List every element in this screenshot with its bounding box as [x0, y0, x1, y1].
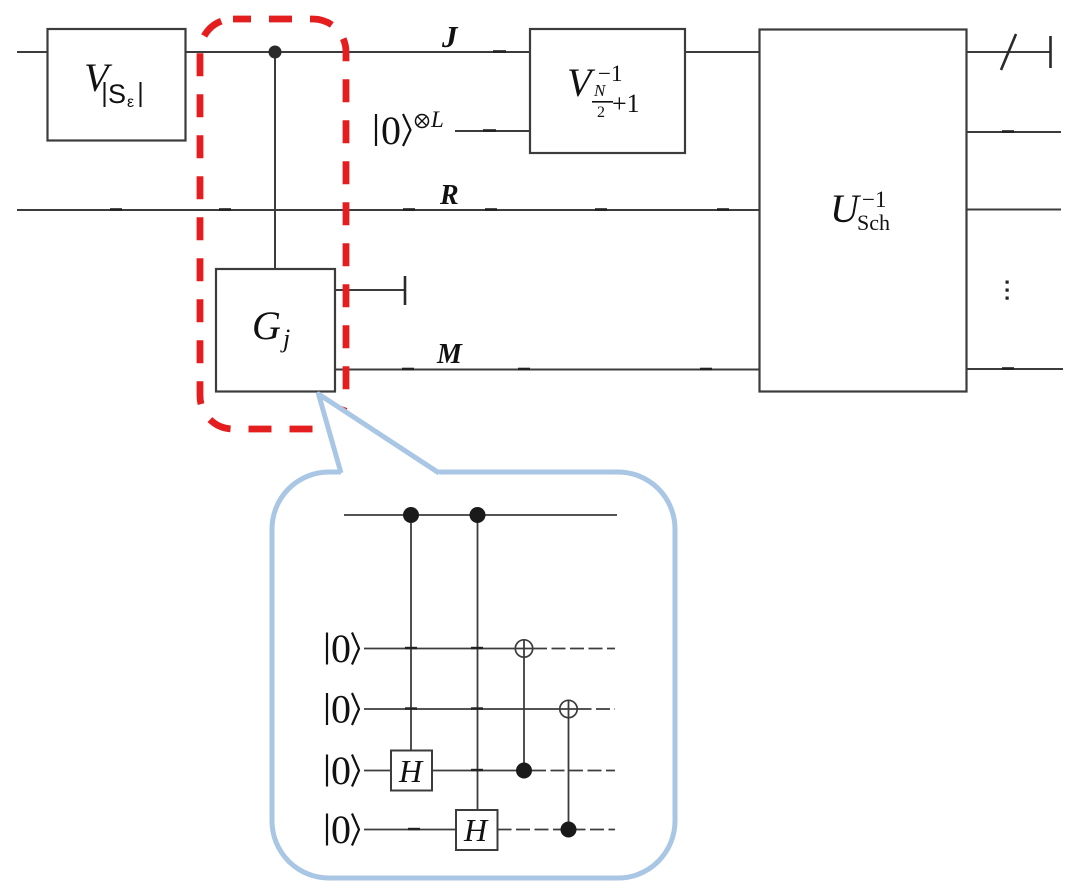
box Gj — [216, 269, 335, 392]
terminator bar top-right — [1049, 36, 1052, 68]
label Gj — [252, 303, 290, 353]
bubble ket labels — [327, 626, 359, 852]
bubble wire 1 solid — [364, 648, 533, 650]
wire J output: U to terminator — [967, 51, 1051, 53]
bubble vertical control 1 — [410, 515, 412, 751]
wire R row — [17, 209, 760, 211]
bubble control dot on wire 4 — [561, 822, 577, 838]
wire row2 output right of U — [967, 131, 1062, 133]
svg-text:ε: ε — [127, 94, 134, 111]
bubble H gate 2 — [456, 810, 498, 850]
wire R output right of U — [967, 209, 1062, 211]
red dashed highlight box — [200, 19, 346, 429]
label ket0 tensor L — [376, 107, 444, 153]
bubble tail eraser — [341, 469, 439, 476]
bubble H gate 1 — [391, 751, 432, 791]
bubble control dot on wire 3 — [516, 763, 532, 779]
bubble vertical cnot 2 — [568, 701, 570, 830]
label V_{|S_eps|} — [84, 55, 141, 111]
svg-text:S: S — [108, 79, 126, 109]
svg-text:H: H — [398, 753, 424, 789]
dots vertical ellipsis right of U — [1006, 281, 1009, 300]
wire ticks — [110, 52, 1014, 370]
label U_Sch^-1 — [830, 186, 890, 235]
wire control vertical from dot to Gj — [274, 52, 276, 269]
bubble top wire — [344, 514, 617, 516]
svg-text:+1: +1 — [612, 89, 640, 118]
svg-text:0: 0 — [331, 687, 351, 732]
bubble wire ticks — [405, 648, 483, 829]
bubble vertical control 2 — [477, 515, 479, 810]
svg-text:N: N — [593, 81, 607, 100]
bubble control dot 1 on top wire — [403, 507, 419, 523]
control dot on J wire — [269, 46, 282, 59]
wire M output right of U — [967, 368, 1064, 370]
terminator bar on Gj stub — [404, 276, 407, 305]
wire M row: Gj to U — [335, 369, 760, 371]
wire J row left stub — [17, 51, 48, 53]
svg-text:0: 0 — [331, 748, 351, 793]
bubble cnot target 1 — [515, 640, 532, 657]
bubble wire 4 dashed — [498, 829, 616, 831]
box V_{|S_eps|} — [48, 29, 186, 141]
svg-text:Sch: Sch — [857, 210, 890, 235]
label V^{-1}_{N/2+1} — [567, 60, 640, 121]
wire J row: Vinv to U — [685, 51, 760, 53]
bubble control dot 2 on top wire — [470, 507, 486, 523]
svg-text:G: G — [252, 303, 281, 348]
svg-text:J: J — [441, 19, 459, 54]
bubble wire 3 solid — [364, 770, 391, 772]
bubble circuit — [344, 515, 617, 830]
bubble wire 3 dashed — [532, 770, 615, 772]
bubble body — [272, 472, 675, 878]
bubble cnot target 2 — [560, 700, 577, 717]
svg-text:0: 0 — [331, 626, 351, 671]
svg-text:−1: −1 — [862, 187, 886, 212]
svg-text:L: L — [430, 107, 444, 132]
svg-text:R: R — [439, 180, 459, 211]
slash on J output wire — [1001, 34, 1016, 70]
svg-text:2: 2 — [597, 104, 605, 121]
wire J row: box V to box Vinv — [186, 51, 531, 53]
bubble wire 1 dashed — [533, 648, 615, 650]
svg-text:H: H — [463, 812, 489, 848]
wire |0>L input to Vinv — [455, 130, 530, 132]
svg-text:0: 0 — [381, 108, 401, 153]
bubble wire 2 solid — [364, 708, 578, 710]
bubble tail — [319, 394, 440, 473]
wire Gj measure stub — [335, 289, 405, 291]
bubble wire 4 solid — [364, 829, 456, 831]
svg-text:0: 0 — [331, 807, 351, 852]
box U_Sch inverse — [760, 30, 967, 392]
svg-text:M: M — [436, 339, 463, 370]
box Vinv — [530, 29, 685, 153]
bubble wire 2 dashed — [578, 708, 616, 710]
bubble vertical cnot 1 — [523, 640, 525, 771]
